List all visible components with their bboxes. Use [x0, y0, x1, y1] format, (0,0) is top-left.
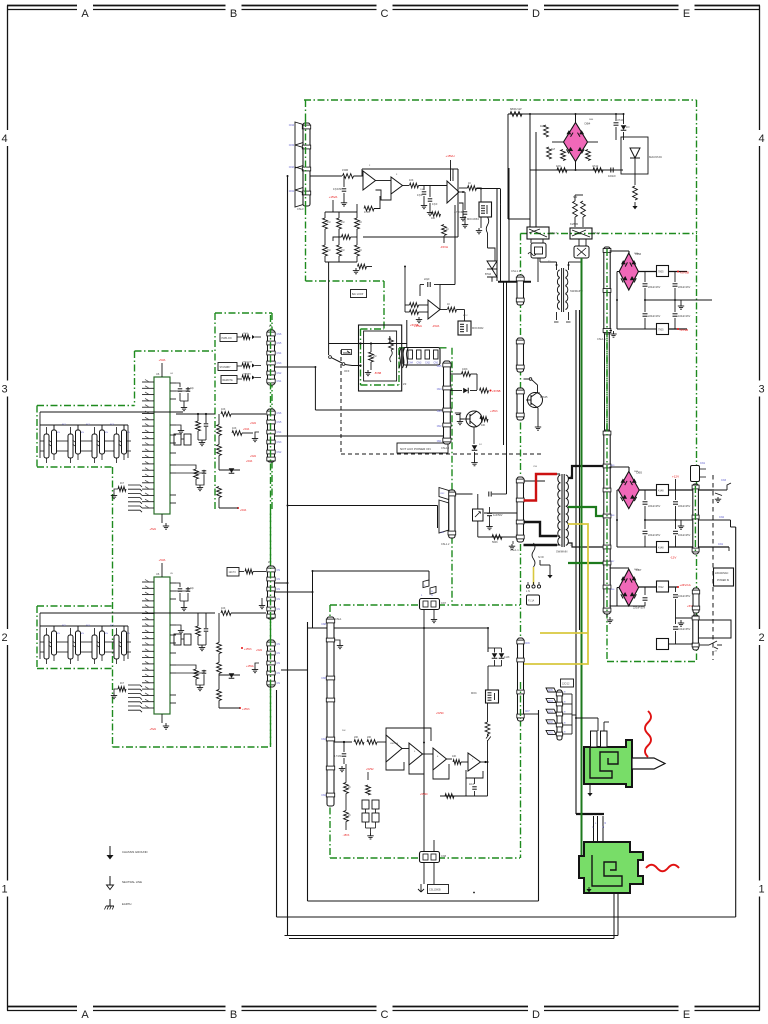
svg-text:1M: 1M	[551, 147, 556, 151]
wires to bottom connector	[423, 820, 425, 852]
connector bar right of G6	[518, 638, 524, 721]
wire rail into opamps	[334, 741, 352, 743]
svg-text:CN8: CN8	[441, 855, 447, 858]
optocoupler U4	[479, 202, 492, 217]
svg-text:+5VSB: +5VSB	[410, 323, 419, 327]
svg-text:-15VA: -15VA	[432, 324, 439, 328]
opto ladder row2	[40, 641, 44, 643]
gnd Z2b	[255, 663, 259, 667]
cap input	[343, 742, 345, 752]
svg-text:220uF/35V: 220uF/35V	[633, 607, 646, 610]
red label +15V op3	[450, 160, 452, 181]
green boundary Z1 connector box	[215, 312, 272, 314]
svg-text:1M: 1M	[540, 124, 545, 128]
svg-text:A: A	[81, 8, 89, 20]
svg-text:NOT AUX POWER ON: NOT AUX POWER ON	[400, 447, 431, 451]
wire y=494 top link	[455, 493, 473, 495]
svg-text:7812: 7812	[658, 586, 664, 589]
svg-text:100K: 100K	[462, 368, 468, 371]
svg-text:4N: 4N	[81, 432, 84, 434]
svg-text:MOC: MOC	[471, 692, 477, 695]
svg-text:+5VA: +5VA	[150, 727, 157, 731]
ground left D2	[610, 330, 613, 332]
svg-text:22uF: 22uF	[469, 784, 475, 786]
wire DB3 right rail	[639, 489, 656, 491]
svg-text:CN2: CN2	[719, 516, 725, 519]
svg-text:B: B	[230, 1009, 237, 1021]
svg-text:OFF: OFF	[344, 369, 350, 373]
svg-text:4: 4	[1, 133, 7, 145]
caps D4	[644, 587, 646, 595]
resistor below thyristor	[634, 174, 636, 185]
svg-text:4K: 4K	[359, 221, 362, 224]
wires D3 to right connector	[699, 489, 728, 491]
svg-text:1K: 1K	[447, 303, 450, 306]
svg-text:1M: 1M	[327, 221, 330, 224]
svg-text:100nF: 100nF	[608, 174, 616, 178]
5-pin connector right bar	[557, 690, 562, 740]
wire bottom rail D4	[669, 643, 693, 645]
fan resistor	[118, 487, 126, 492]
connector bar Z1b	[268, 409, 275, 462]
svg-text:CN: CN	[277, 598, 281, 601]
svg-text:+5VS0: +5VS0	[420, 793, 428, 796]
svg-text:CSL1.1: CSL1.1	[511, 269, 521, 273]
resistor on fb rail	[445, 794, 454, 799]
connector bar primary top	[517, 275, 524, 305]
svg-text:CN6: CN6	[277, 412, 282, 415]
svg-text:K2645: K2645	[540, 395, 548, 399]
svg-text:220uF/16V: 220uF/16V	[648, 315, 661, 318]
red squiggle lower	[646, 865, 679, 872]
svg-text:20K: 20K	[367, 736, 372, 739]
svg-text:+5VA: +5VA	[159, 358, 166, 362]
svg-text:560K: 560K	[492, 541, 498, 544]
svg-text:CSL3: CSL3	[297, 207, 304, 211]
AC terminals	[526, 585, 529, 588]
ground D3	[680, 520, 682, 523]
svg-text:CN: CN	[277, 569, 281, 572]
svg-text:4N: 4N	[57, 633, 60, 635]
wire y=670 to block	[281, 669, 308, 671]
opto rails	[40, 411, 183, 413]
green dash overlay CSL1 bar	[606, 249, 608, 612]
IC microcontroller body	[154, 377, 170, 514]
svg-text:A: A	[81, 1009, 89, 1021]
op3 lower caps cluster	[459, 191, 465, 193]
12C box above	[561, 679, 574, 687]
svg-text:470K: 470K	[366, 209, 372, 211]
wire DB4 top feed	[610, 567, 630, 569]
green wire elbow to lower connector	[582, 865, 585, 867]
wire IC1 to bar	[176, 413, 215, 415]
zener D11	[229, 468, 235, 473]
text box BAJ LOOP	[351, 290, 367, 298]
wire mid pair x503/506	[503, 282, 505, 445]
crystal boxes	[174, 434, 181, 445]
5-pin connector left col	[546, 688, 556, 692]
svg-text:POWER IN: POWER IN	[717, 579, 729, 582]
svg-text:CN1: CN1	[548, 733, 553, 735]
svg-text:L N: L N	[526, 590, 530, 593]
svg-text:4148: 4148	[504, 656, 510, 659]
svg-text:10K: 10K	[481, 424, 486, 427]
svg-text:CN1: CN1	[289, 189, 295, 193]
svg-text:CN: CN	[277, 588, 281, 591]
svg-text:CN5: CN5	[277, 421, 282, 424]
bottom connector small	[420, 852, 440, 863]
svg-text:4N: 4N	[127, 432, 130, 434]
svg-text:CN1: CN1	[700, 462, 706, 465]
resistor R in	[343, 174, 354, 179]
green boundary box main converter (top)	[304, 99, 697, 101]
curvy wire bundle	[399, 348, 401, 368]
AC inlet connector upper (green)	[584, 740, 632, 787]
svg-text:LM2904: LM2904	[390, 743, 399, 745]
svg-text:220uF/16V: 220uF/16V	[678, 286, 691, 289]
wire top rail y=114	[508, 113, 623, 115]
IC bottom-left pin fan	[128, 685, 142, 687]
svg-text:K2645: K2645	[570, 222, 579, 226]
svg-text:CN3: CN3	[437, 410, 442, 413]
svg-text:2K: 2K	[348, 815, 351, 817]
svg-text:4: 4	[758, 133, 764, 145]
upper connector top tabs	[591, 731, 598, 747]
svg-text:CN: CN	[277, 682, 281, 685]
svg-text:Z3: Z3	[403, 382, 407, 386]
resistor diode row1	[462, 372, 471, 377]
wire control rail y=628	[334, 627, 488, 629]
svg-text:4148: 4148	[658, 547, 664, 550]
green wire long vertical	[581, 258, 583, 866]
opto isolator 1	[44, 434, 49, 458]
svg-text:2M: 2M	[373, 355, 376, 358]
svg-text:YELLOW: YELLOW	[243, 362, 253, 364]
svg-text:CSL1000B: CSL1000B	[429, 889, 441, 892]
svg-text:CHASSIS GROUND: CHASSIS GROUND	[122, 850, 148, 854]
svg-text:CN4: CN4	[548, 701, 553, 703]
green wire secondary 2	[568, 562, 604, 564]
opamp3 opto chain	[468, 186, 477, 191]
text box STANDBY	[218, 363, 237, 371]
svg-text:CN4: CN4	[321, 738, 326, 741]
svg-text:YE11: YE11	[243, 333, 249, 335]
bottom fb rail	[440, 795, 488, 797]
svg-text:EARTH: EARTH	[122, 902, 131, 906]
triac D5	[487, 261, 497, 269]
wire DB3 top feed	[610, 466, 630, 468]
resistor below opto	[487, 703, 489, 722]
wire mid feed y=513 y=537	[484, 512, 517, 514]
opto isolator 1	[44, 635, 49, 659]
wire thick to lower connector	[576, 813, 604, 815]
connector bar primary low	[517, 388, 524, 420]
svg-text:CSL2: CSL2	[593, 231, 600, 235]
red thick wire primary	[524, 474, 558, 501]
opamp interconnects	[402, 748, 409, 750]
svg-text:47pF: 47pF	[432, 203, 438, 206]
resistor after caps	[432, 212, 441, 217]
transformer T2 standby	[561, 268, 563, 312]
svg-text:CN1: CN1	[437, 440, 442, 443]
caps output D2	[644, 272, 646, 283]
switch icon	[342, 350, 352, 355]
vertical wire x424	[423, 628, 425, 820]
diode pair mid	[492, 653, 498, 658]
op-amp U2B	[391, 177, 403, 194]
svg-text:CN: CN	[277, 578, 281, 581]
svg-text:CSL1.2: CSL1.2	[441, 543, 450, 546]
ground D2	[680, 300, 682, 303]
svg-text:CN6: CN6	[525, 643, 530, 645]
regulator box VR1	[657, 266, 669, 277]
bridge rectifier DB2	[619, 253, 638, 290]
svg-text:4K: 4K	[359, 249, 362, 252]
svg-text:+5VA: +5VA	[246, 459, 252, 463]
diode row2	[463, 388, 468, 394]
svg-text:+15Vh: +15Vh	[244, 647, 252, 651]
svg-text:CN4: CN4	[408, 362, 413, 365]
cap and diode right of DB1	[615, 114, 617, 121]
ground Q10	[460, 413, 464, 419]
svg-text:CN2: CN2	[425, 362, 430, 365]
wire center vertical pair	[575, 310, 577, 814]
green boundary output section	[521, 233, 698, 235]
IC right pins	[170, 382, 176, 384]
rc cluster right	[176, 665, 196, 669]
wire op3 down to op4 loop	[454, 205, 456, 285]
svg-text:B: B	[230, 8, 237, 20]
svg-text:4.7uF/6h: 4.7uF/6h	[454, 211, 464, 214]
svg-text:GREEN: GREEN	[243, 374, 251, 376]
svg-text:CN2: CN2	[440, 493, 445, 495]
op-amp U5C	[433, 748, 447, 770]
crystal boxes	[174, 634, 181, 645]
isolation box Z3	[359, 325, 402, 391]
page border frame	[7, 5, 77, 7]
red squiggle upper	[645, 711, 651, 757]
svg-text:10K: 10K	[221, 408, 226, 411]
op-amp U3	[428, 300, 440, 319]
connector long bar CSL1	[604, 247, 610, 334]
svg-text:1M: 1M	[341, 249, 344, 252]
wire DB2 right rail	[638, 271, 656, 273]
wire with break to op4	[487, 734, 489, 736]
connector bar right D3	[693, 484, 699, 554]
4-pin connector strip	[403, 348, 440, 366]
wire y=436	[273, 435, 443, 437]
opto ladder row1	[40, 440, 44, 442]
relay K1 box	[527, 227, 549, 239]
transformer T1 main	[561, 474, 563, 547]
svg-text:20K: 20K	[354, 736, 359, 739]
text box REMOTE	[221, 376, 237, 384]
green boundary bottom control box	[330, 604, 520, 606]
connector bar CSL3	[303, 123, 310, 206]
gnd below cap mid	[489, 524, 491, 527]
lower connector inner detail	[592, 855, 622, 886]
svg-text:+15Vh: +15Vh	[490, 409, 498, 413]
vertical R cluster IC1	[217, 425, 222, 436]
switch right of bar	[524, 378, 530, 380]
svg-text:CSL1.1: CSL1.1	[510, 548, 519, 552]
svg-text:4N: 4N	[81, 633, 84, 635]
wire op3 resistor to pair	[477, 188, 501, 190]
svg-text:CSL7: CSL7	[550, 231, 557, 235]
cap D4 lower	[675, 618, 677, 624]
green wire secondary 1	[568, 507, 604, 516]
svg-text:4N: 4N	[105, 633, 108, 635]
flags above CN7	[423, 580, 429, 588]
svg-text:100uF/35V: 100uF/35V	[678, 628, 691, 631]
svg-text:220/240VAC: 220/240VAC	[715, 572, 729, 575]
green boundary left spine	[112, 467, 114, 747]
wire CSL3 out	[310, 175, 342, 177]
wire through Z3	[361, 343, 402, 345]
svg-text:REMOTE: REMOTE	[223, 379, 234, 382]
green boundary opto group 1 box	[37, 405, 135, 407]
red label +15VA left	[332, 200, 334, 212]
mosfet Q primary	[528, 393, 543, 408]
bleeder cap mid	[487, 512, 492, 514]
svg-text:E: E	[683, 1009, 690, 1021]
junction dots	[287, 505, 289, 507]
lower connector ground	[588, 887, 590, 889]
svg-text:CN6: CN6	[321, 677, 326, 680]
svg-text:22pF: 22pF	[424, 278, 430, 281]
caps between stages	[423, 186, 425, 191]
vertical resistors lower-left	[344, 783, 349, 794]
svg-text:100uF/25V: 100uF/25V	[678, 534, 691, 537]
svg-text:-12V: -12V	[670, 556, 676, 560]
wire DB2 left down	[617, 271, 619, 273]
wire op3 output pair down	[496, 189, 498, 281]
text box POWER IN	[714, 568, 734, 586]
upper connector ground	[589, 784, 591, 790]
wire left vertical rail	[287, 176, 289, 936]
svg-text:7805: 7805	[658, 271, 664, 274]
svg-text:220uF/25V: 220uF/25V	[648, 505, 661, 508]
svg-text:3: 3	[758, 384, 764, 396]
svg-text:+5VS0: +5VS0	[436, 712, 444, 715]
svg-text:+5VS2: +5VS2	[366, 768, 374, 771]
svg-text:+5VA: +5VA	[159, 558, 166, 562]
svg-text:10K: 10K	[232, 427, 237, 430]
IC bottom stub	[161, 514, 163, 523]
svg-text:DB4: DB4	[585, 122, 591, 126]
connector bar primary mid	[517, 338, 524, 372]
wire IC2 to bar	[176, 612, 215, 614]
opto feedback box	[458, 321, 471, 335]
thyristor box	[621, 137, 648, 174]
svg-text:CN4: CN4	[277, 352, 282, 355]
svg-text:SW/MAIN: SW/MAIN	[556, 550, 568, 554]
wire bottom return pair	[285, 935, 619, 937]
svg-text:47nF: 47nF	[617, 118, 624, 122]
svg-text:D: D	[532, 8, 540, 20]
svg-text:U6: U6	[156, 572, 160, 576]
svg-text:10K: 10K	[452, 755, 457, 758]
rd pairs Z1a	[242, 335, 250, 340]
connector bar Z1a	[268, 330, 275, 385]
feedback rects bottom opamps	[386, 762, 404, 770]
svg-text:CSL1: CSL1	[335, 617, 342, 621]
svg-text:10K: 10K	[556, 164, 561, 168]
svg-text:2K: 2K	[348, 787, 351, 789]
gnd near bar IC2	[261, 598, 263, 603]
optocoupler U7	[486, 690, 499, 703]
wire outer block right edge	[735, 527, 737, 917]
svg-text:-15Vh: -15Vh	[343, 834, 350, 837]
wire rail U5 top loop	[386, 728, 431, 741]
cap input filter	[343, 176, 345, 187]
svg-text:1M: 1M	[327, 249, 330, 252]
AC outlet connector lower (green)	[579, 842, 643, 893]
svg-text:PWR-ON: PWR-ON	[222, 337, 232, 340]
resistors around DB1	[544, 125, 549, 137]
bridge rectifier DB3	[618, 471, 639, 508]
upper connector inner detail	[590, 747, 618, 778]
svg-text:STANDBY: STANDBY	[220, 366, 232, 369]
opto isolator 3	[92, 434, 97, 458]
svg-text:4N: 4N	[105, 432, 108, 434]
wires into upper tabs	[576, 717, 598, 719]
svg-text:1N: 1N	[626, 125, 629, 129]
svg-text:D: D	[532, 1009, 540, 1021]
squiggle wire	[486, 217, 489, 233]
switch mark below +12V rail	[715, 493, 722, 496]
zener below	[473, 427, 475, 444]
svg-text:CN: CN	[277, 652, 281, 655]
transformer T1 pins left	[557, 473, 560, 475]
svg-text:CN7: CN7	[525, 711, 530, 713]
opto isolator 4	[114, 434, 119, 458]
svg-text:CN6: CN6	[610, 589, 615, 591]
svg-text:+5VSB: +5VSB	[492, 389, 501, 393]
wire y=583	[273, 582, 288, 584]
svg-text:100uF/16V: 100uF/16V	[678, 315, 691, 318]
svg-text:CN8: CN8	[610, 515, 615, 517]
regulator box VR2	[657, 324, 669, 335]
IC2 12C box	[227, 568, 239, 577]
svg-text:CN1: CN1	[718, 543, 724, 546]
wire bottom-left block box	[307, 622, 309, 901]
svg-text:3: 3	[1, 384, 7, 396]
op-amp U2C	[447, 181, 459, 203]
svg-text:E: E	[683, 8, 690, 20]
U5D feedback loops	[466, 770, 483, 778]
dashed vertical right	[712, 475, 714, 660]
svg-text:47pF/6h: 47pF/6h	[333, 188, 342, 191]
legend earth ground	[109, 899, 111, 906]
svg-text:+15Vh: +15Vh	[242, 707, 250, 711]
svg-text:1M: 1M	[341, 221, 344, 224]
svg-text:CN6: CN6	[277, 333, 282, 336]
wire x=509 vertical	[508, 168, 510, 282]
svg-text:C: C	[381, 8, 389, 20]
wire bottom rail D3	[669, 546, 730, 548]
svg-text:CN4: CN4	[437, 388, 442, 391]
svg-text:+5VA: +5VA	[250, 455, 256, 458]
svg-text:220uF/25V: 220uF/25V	[678, 505, 691, 508]
svg-text:10K: 10K	[221, 607, 226, 610]
svg-text:+5VA: +5VA	[250, 422, 256, 425]
caps right of IC	[176, 583, 180, 587]
svg-text:CN7: CN7	[610, 561, 615, 563]
wire to x576	[572, 714, 576, 716]
op-amp U5A	[386, 735, 402, 762]
IC right pins	[170, 582, 176, 584]
